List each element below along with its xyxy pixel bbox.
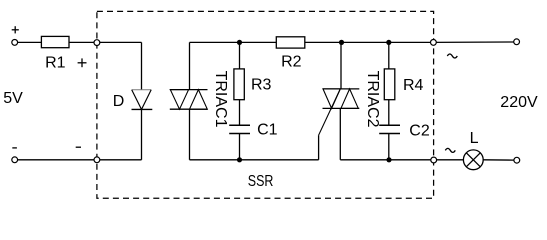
resistor R4 [384,69,395,100]
polarity mark + (top left) [12,26,19,33]
terminal input + [12,40,18,46]
node on left border bottom [94,157,100,163]
polarity mark - (inner, bottom) [76,146,81,148]
polarity mark + (inner, right of R1) [78,58,87,67]
resistor R2 [276,37,305,48]
svg-text:TRIAC1: TRIAC1 [212,71,229,128]
resistor R1 [41,36,69,47]
wire TRIAC2 top vertical [340,42,342,89]
wire TRIAC1 bottom vertical [189,109,191,160]
wire R4 to C2 [388,100,390,126]
resistor R3 [234,69,244,100]
svg-text:R3: R3 [251,76,272,93]
svg-text:TRIAC2: TRIAC2 [364,71,381,128]
polarity mark - (bottom left) [12,147,17,149]
wire diode cathode vertical [141,109,143,159]
terminal output top [514,39,520,45]
wire C2 bottom [388,134,390,160]
node on left border top [94,40,100,46]
SSR dashed enclosure box [97,11,434,198]
svg-text:R4: R4 [403,77,424,94]
junction node R3 top [237,40,242,45]
junction node C1 bottom [237,157,242,162]
svg-text:220V: 220V [500,94,538,111]
wire SSR bottom-left rail [190,159,319,161]
wire TRIAC2 gate riser [318,135,320,160]
wire R3 column top [239,42,241,69]
AC mark ~ (top right) [447,54,457,58]
svg-text:R2: R2 [281,53,302,70]
wire diode anode vertical [141,42,143,89]
wire node to diode column top [97,41,142,43]
wire TRIAC1 top vertical from top rail [189,42,191,89]
junction node TRIAC2 top [339,40,344,45]
wire top rail R2 to right border node [305,41,434,43]
wire output bottom: border node to lamp [434,159,464,161]
capacitor C2 [379,125,400,133]
svg-text:C1: C1 [257,122,278,139]
wire input top: + terminal to R1 [18,41,42,43]
svg-text:D: D [113,93,125,110]
svg-text:L: L [470,130,479,147]
terminal input - [12,157,18,163]
node on right border bottom [431,157,437,163]
diode D [132,90,153,110]
wire TRIAC2 bottom vertical [339,108,341,159]
wire node to diode bottom [97,159,142,161]
wire SSR bottom-right rail [340,159,433,161]
triac TRIAC1 [170,90,208,110]
node on right border top [431,40,437,46]
wire TRIAC2 gate diagonal [319,89,341,135]
wire top rail segment TRIAC1 to R2 [190,41,277,43]
wire input bottom: - terminal to node [18,159,97,161]
terminal output bottom [514,157,520,163]
junction node C2 bottom [386,157,391,162]
wire output top: border node to right terminal [433,41,514,43]
svg-text:R1: R1 [45,55,66,72]
wire R3 to C1 [239,100,241,126]
wire R4 column top [388,42,390,69]
wire C1 bottom [239,134,241,160]
svg-text:C2: C2 [409,123,430,140]
wire R1 to node on dashed border [69,41,97,43]
wire lamp to right bottom terminal [483,159,514,161]
AC mark ~ (bottom right) [445,148,455,152]
triac TRIAC2 [323,89,360,109]
svg-text:SSR: SSR [248,173,274,191]
lamp L [463,150,483,170]
capacitor C1 [229,125,250,133]
svg-text:5V: 5V [3,90,23,107]
junction node R4 top [386,40,391,45]
